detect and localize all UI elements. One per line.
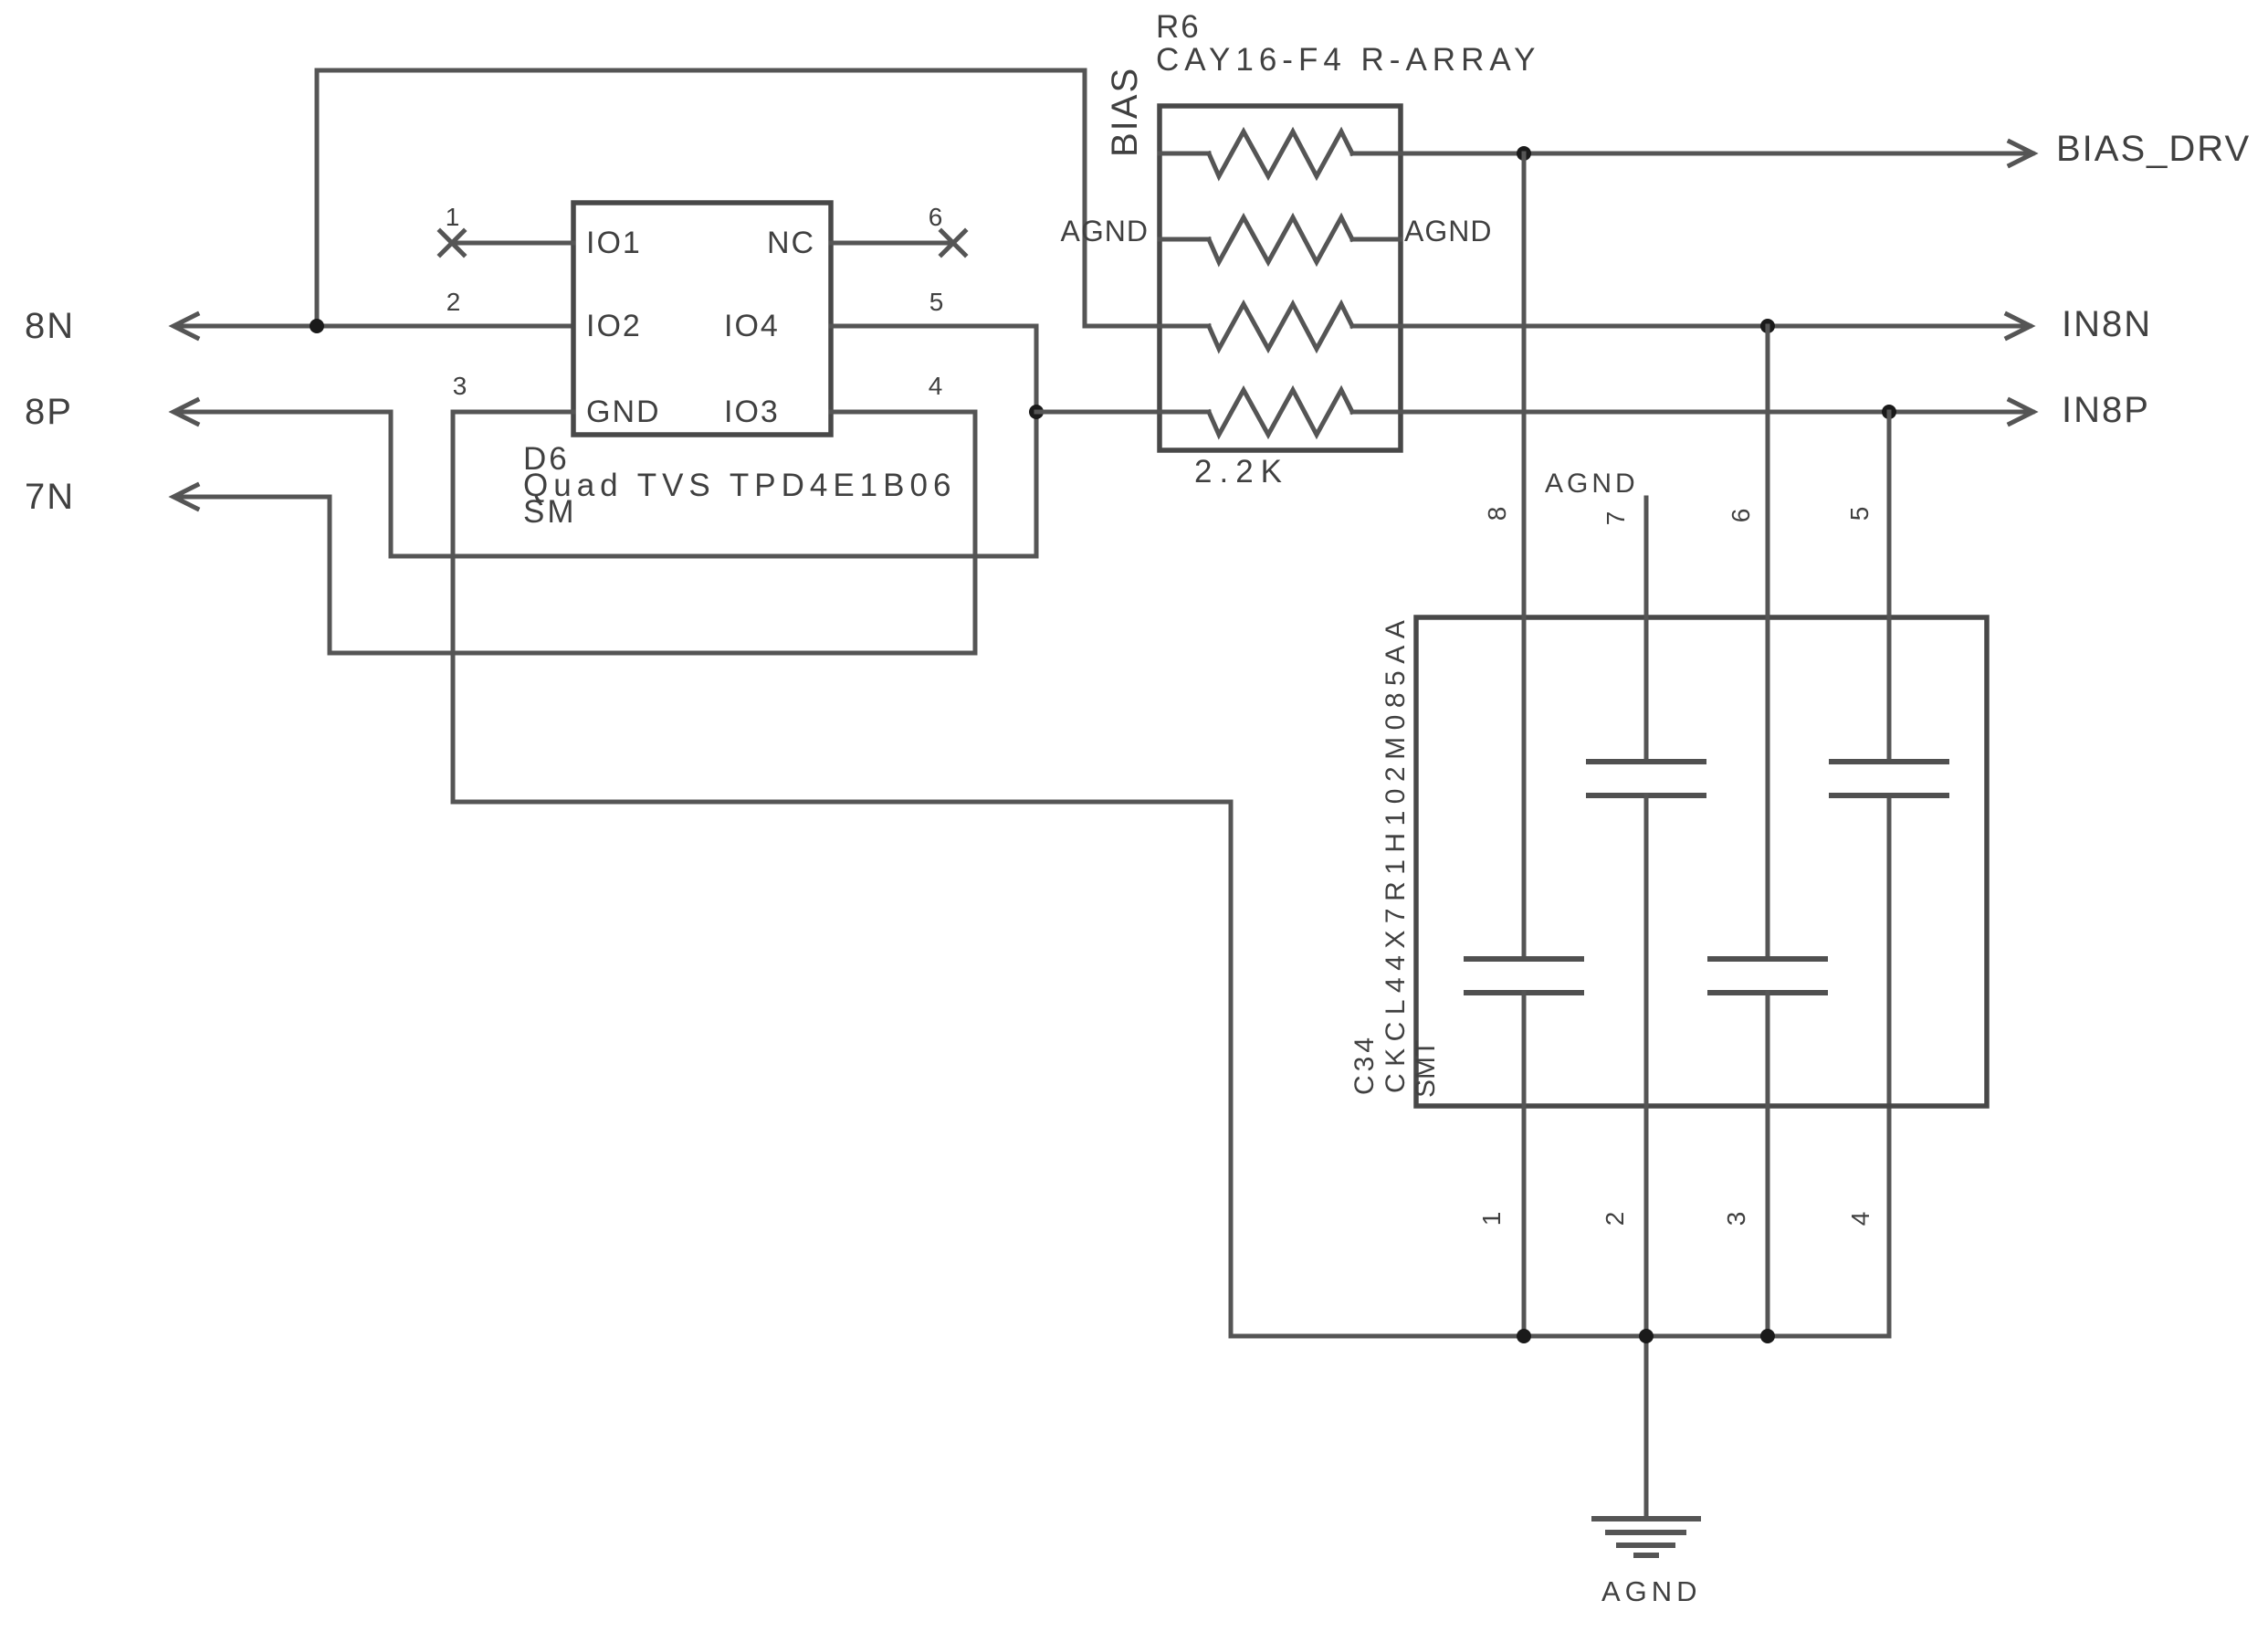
svg-text:8: 8 <box>1483 506 1511 521</box>
svg-text:IO2: IO2 <box>586 309 642 343</box>
no-connect X on pin 1 <box>440 231 464 255</box>
svg-text:4: 4 <box>1846 1211 1874 1227</box>
svg-text:CKCL44X7R1H102M085AA: CKCL44X7R1H102M085AA <box>1381 614 1411 1093</box>
svg-text:SMT: SMT <box>1411 1040 1441 1098</box>
wire C34 pin 5 from IN8P down to capacitor <box>1887 412 1892 762</box>
ground symbol AGND <box>1594 1519 1698 1555</box>
wire C34 pin 2 from capacitor down through ground rail to AGND symbol <box>1644 795 1649 1519</box>
svg-text:1: 1 <box>1477 1211 1506 1227</box>
svg-text:2: 2 <box>1601 1211 1629 1227</box>
resistor R6 element 2 <box>1160 217 1401 262</box>
arrow head 8P (points left) <box>173 400 197 424</box>
wire D6 pin 5 lead <box>831 324 1036 329</box>
svg-text:Quad TVS TPD4E1B06: Quad TVS TPD4E1B06 <box>523 468 956 503</box>
svg-text:AGND: AGND <box>1545 469 1639 499</box>
svg-text:AGND: AGND <box>1601 1575 1702 1607</box>
svg-text:GND: GND <box>586 395 661 429</box>
capacitor C34 element 1 (pins 8-1) <box>1464 959 1584 993</box>
arrow head BIAS_DRV (points right) <box>2010 142 2033 165</box>
svg-text:2: 2 <box>446 288 462 316</box>
svg-text:IN8N: IN8N <box>2062 304 2152 344</box>
svg-text:IO3: IO3 <box>724 395 780 429</box>
svg-text:2.2K: 2.2K <box>1194 454 1289 490</box>
wire C34 pin 6 from IN8N down to capacitor <box>1766 326 1770 959</box>
wire 8N from arrow to D6 pin 2 <box>175 324 573 329</box>
node junction dot IO4/R6.4/8P <box>1029 405 1044 419</box>
node junction dot pin 2 on ground rail <box>1639 1329 1654 1343</box>
node junction dot BIAS_DRV / C34 pin 8 <box>1517 146 1531 161</box>
node junction dot on 8N wire <box>310 319 324 333</box>
svg-text:8N: 8N <box>25 306 75 346</box>
no-connect X on pin 6 <box>941 231 965 255</box>
svg-text:BIAS: BIAS <box>1105 67 1145 157</box>
IC D6 body <box>573 203 831 435</box>
svg-text:5: 5 <box>1845 506 1874 521</box>
capacitor C34 element 4 (pins 5-4) <box>1829 762 1949 795</box>
svg-text:5: 5 <box>929 288 945 316</box>
node junction dot IN8N / C34 pin 6 <box>1760 319 1775 333</box>
resistor R6 element 3 <box>1160 304 1401 349</box>
svg-text:IO4: IO4 <box>724 309 780 343</box>
wire IN8N from R6.3 to arrow <box>1401 324 2030 329</box>
node junction dot pin 1 on ground rail <box>1517 1329 1531 1343</box>
svg-text:6: 6 <box>1727 508 1755 523</box>
wire D6 pin 4 lead <box>831 410 975 415</box>
svg-text:SM: SM <box>523 494 577 530</box>
wire BIAS_DRV from R6.1 to arrow <box>1401 152 2032 156</box>
svg-text:3: 3 <box>453 372 468 400</box>
svg-text:4: 4 <box>929 372 944 400</box>
svg-text:AGND: AGND <box>1061 215 1149 247</box>
wire 8P from arrow, jog down and over to IO4 net vertical <box>175 326 1036 556</box>
svg-text:AGND: AGND <box>1404 215 1492 247</box>
svg-text:C34: C34 <box>1349 1034 1380 1095</box>
wire from junction to R6 resistor 4 left pin <box>1036 410 1160 415</box>
wire D6 pin 6 lead <box>831 241 953 246</box>
svg-text:CAY16-F4 R-ARRAY: CAY16-F4 R-ARRAY <box>1156 42 1540 78</box>
svg-text:3: 3 <box>1722 1211 1750 1227</box>
resistor R6 element 4 <box>1160 390 1401 435</box>
wire 7N from arrow, jog down and over to D6 pin 4 vertical <box>175 412 975 653</box>
node junction dot IN8P / C34 pin 5 <box>1882 405 1896 419</box>
capacitor C34 element 2 (pins 7-2) <box>1586 762 1706 795</box>
resistor R6 element 1 <box>1160 132 1401 176</box>
svg-text:NC: NC <box>767 226 815 260</box>
resistor array R6 body <box>1160 106 1401 450</box>
svg-text:IN8P: IN8P <box>2062 390 2150 430</box>
arrow head IN8N (points right) <box>2007 314 2031 338</box>
svg-text:7N: 7N <box>25 477 75 517</box>
arrow head 7N (points left) <box>173 485 197 509</box>
wire C34 pin 8 from BIAS_DRV down to capacitor <box>1522 153 1527 959</box>
svg-text:IO1: IO1 <box>586 226 642 260</box>
wire top loop from 8N junction to R6 resistor 3 left pin <box>317 70 1160 326</box>
wire IN8P from R6.4 to arrow <box>1401 410 2032 415</box>
node junction dot pin 3 on ground rail <box>1760 1329 1775 1343</box>
capacitor array C34 body <box>1416 617 1987 1106</box>
wire C34 pin 1 from capacitor down to ground rail <box>1522 993 1527 1336</box>
wire D6 pin 3 lead <box>453 410 573 415</box>
wire GND net from D6 pin 3 down and across to C34 ground rail <box>453 412 1889 1336</box>
svg-text:8P: 8P <box>25 392 73 432</box>
svg-text:6: 6 <box>929 203 944 231</box>
arrow head IN8P (points right) <box>2010 400 2033 424</box>
wire C34 pin 7 from AGND down to capacitor <box>1644 498 1649 762</box>
svg-text:7: 7 <box>1601 511 1630 526</box>
svg-text:R6: R6 <box>1156 9 1201 45</box>
svg-text:BIAS_DRV: BIAS_DRV <box>2056 129 2251 169</box>
capacitor C34 element 3 (pins 6-3) <box>1707 959 1828 993</box>
wire D6 pin 1 lead <box>452 241 573 246</box>
wire C34 pin 3 from capacitor down to ground rail <box>1766 993 1770 1336</box>
arrow head 8N (points left) <box>173 314 197 338</box>
svg-text:1: 1 <box>446 203 461 231</box>
